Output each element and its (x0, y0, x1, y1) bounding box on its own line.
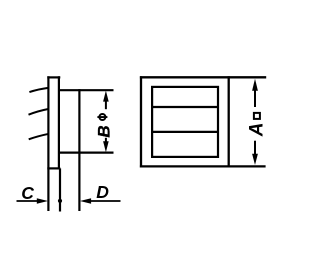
arrowhead down of dimension A (252, 154, 258, 165)
svg-text:A: A (246, 123, 267, 138)
arrowhead right of dimension C (37, 198, 48, 204)
outer square: right edge (228, 76, 230, 167)
lead wire 1 (29, 88, 49, 92)
outer square of front view: top line with extension (140, 76, 266, 78)
svg-text:B: B (94, 125, 113, 137)
outer square: left edge (140, 76, 142, 167)
dimension B: top arrow tail (105, 97, 107, 109)
dimension C arrow line (17, 200, 41, 202)
louver divider 2 (152, 131, 218, 133)
square symbol of dimension A (254, 113, 260, 119)
plate right edge / stem middle line (58, 76, 60, 169)
plate bottom bar (47, 167, 60, 169)
arrowhead left of dimension D (80, 198, 91, 204)
arrowhead down of dimension B (103, 141, 109, 152)
arrowhead up of dimension A (252, 79, 258, 91)
body right edge / stem right line (78, 89, 80, 211)
plate left edge (47, 76, 49, 211)
plate top edge (47, 76, 60, 78)
arrowhead up of dimension B (103, 91, 109, 102)
svg-text:D: D (96, 182, 109, 202)
lead wire 2 (29, 109, 49, 115)
svg-text:C: C (21, 183, 34, 203)
inner rectangle (louver frame) (152, 87, 218, 157)
dimension D arrow line (88, 200, 121, 202)
dimension B: bottom arrow tail (105, 138, 107, 146)
dimension A: bottom arrow tail (254, 141, 256, 158)
body top line (59, 89, 113, 91)
phi symbol stroke (97, 116, 107, 118)
lead wire 3 (29, 134, 49, 140)
center dot on stem axis (58, 199, 62, 203)
louver divider 1 (152, 106, 218, 108)
dimension A: top arrow tail (254, 86, 256, 107)
outer square: bottom line with extension (140, 165, 266, 167)
body bottom line (59, 152, 113, 154)
phi symbol circle of dimension B (99, 114, 105, 120)
stem middle line (axis) (59, 168, 61, 211)
